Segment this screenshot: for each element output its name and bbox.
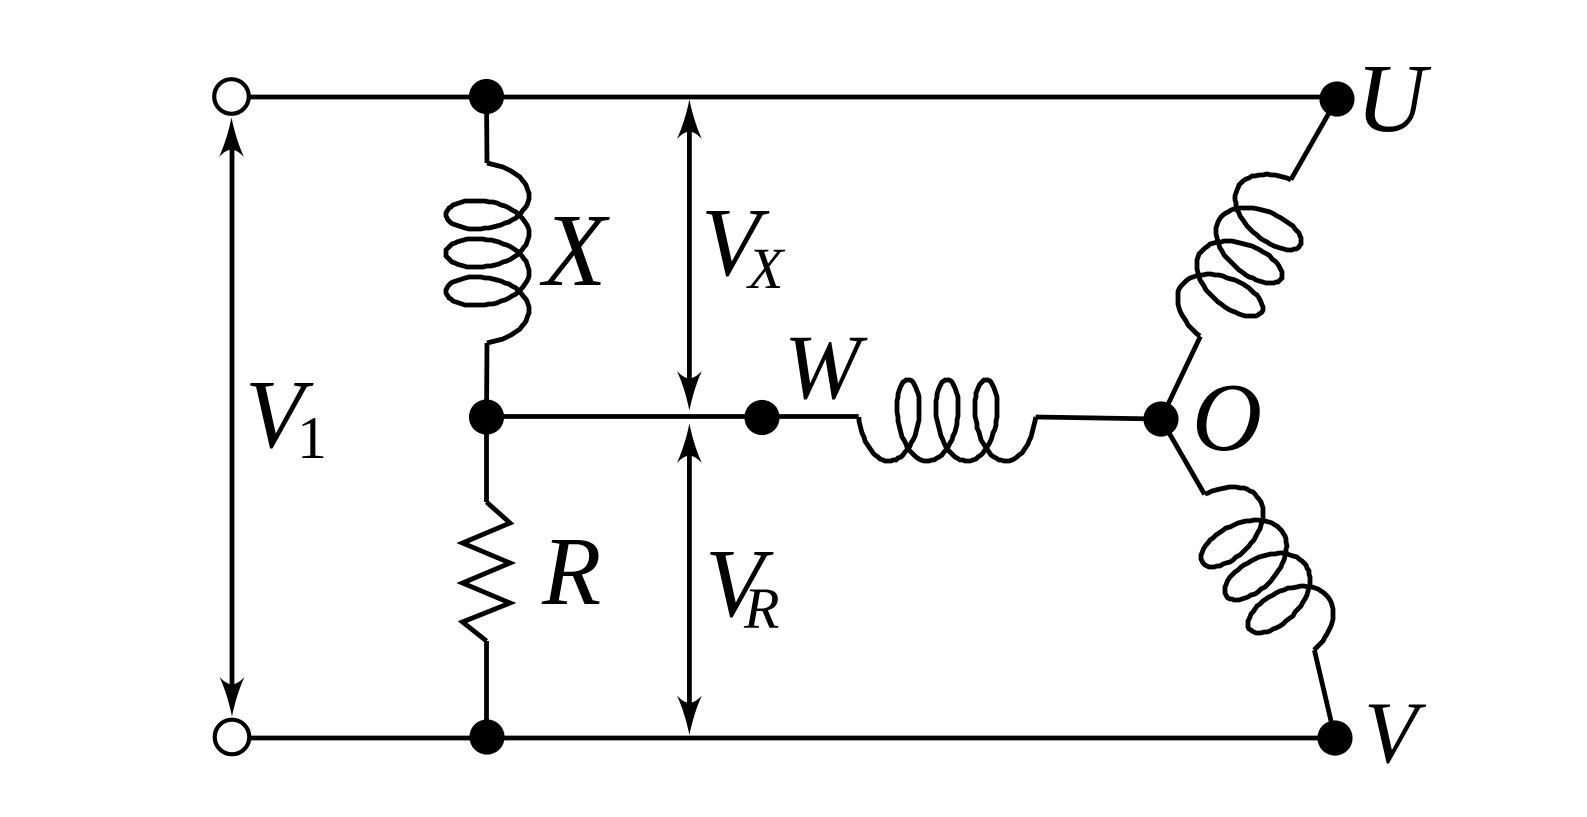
wire V-coil to V terminal <box>1314 650 1335 738</box>
wire top stub of X branch <box>484 97 489 164</box>
svg-text:1: 1 <box>297 405 327 471</box>
arrowhead V1 bottom <box>220 677 245 716</box>
inductor V-phase coil <box>1201 487 1333 650</box>
node W junction dot <box>744 400 779 435</box>
svg-text:R: R <box>541 518 601 625</box>
dimension line VR <box>687 452 692 706</box>
resistor R zigzag <box>463 502 511 641</box>
wire O to V-coil <box>1161 419 1205 494</box>
svg-text:O: O <box>1192 364 1262 471</box>
arrowhead VR top <box>677 424 702 463</box>
wire top horizontal <box>249 95 1337 100</box>
arrowhead VX top <box>677 100 702 139</box>
arrowhead VR bottom <box>677 696 702 735</box>
wire middle horizontal (node to W to coil to O) <box>487 414 859 419</box>
wire R to node C <box>484 641 489 737</box>
svg-text:X: X <box>539 193 610 308</box>
inductor X <box>446 163 529 343</box>
node A junction dot <box>469 79 504 114</box>
arrowhead V1 top <box>219 118 244 157</box>
svg-text:U: U <box>1356 45 1432 152</box>
svg-text:V: V <box>1364 685 1427 782</box>
terminal T1 top-left (open circle) <box>214 79 249 114</box>
terminal T2 bottom-left (open circle) <box>215 720 250 755</box>
wire U-coil to U terminal <box>1291 99 1337 180</box>
wire X to node B <box>484 343 489 417</box>
wire bottom horizontal <box>250 736 1335 741</box>
node U terminal dot <box>1319 81 1354 116</box>
node B junction dot <box>469 399 504 434</box>
wire O to U-coil <box>1161 336 1200 419</box>
svg-text:X: X <box>746 236 786 301</box>
wire from W-coil to node O <box>1036 417 1161 419</box>
inductor W coil <box>859 380 1036 461</box>
node V terminal dot <box>1317 720 1352 755</box>
dimension line V1 <box>230 146 235 688</box>
node C junction dot <box>469 719 504 754</box>
wire node B to resistor R <box>484 417 489 502</box>
svg-text:W: W <box>784 316 868 418</box>
node O junction dot <box>1143 401 1178 436</box>
inductor U-phase coil <box>1178 174 1301 336</box>
arrowhead VX bottom <box>677 371 702 410</box>
dimension line VX <box>687 128 692 382</box>
svg-text:R: R <box>743 576 779 641</box>
